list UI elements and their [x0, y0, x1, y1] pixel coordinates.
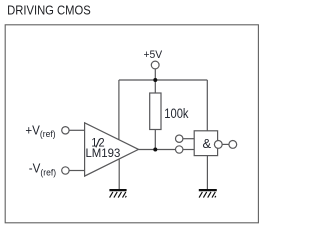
svg-text:&: & — [203, 136, 212, 151]
svg-text:LM193: LM193 — [85, 145, 120, 160]
svg-text:DRIVING CMOS: DRIVING CMOS — [7, 3, 91, 18]
svg-text:100k: 100k — [164, 106, 189, 121]
svg-text:+5V: +5V — [144, 48, 163, 61]
